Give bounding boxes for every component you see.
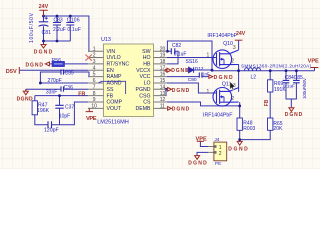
svg-text:FB: FB <box>78 92 85 98</box>
svg-text:6: 6 <box>93 78 96 84</box>
svg-text:IRF1404PbF: IRF1404PbF <box>203 112 232 118</box>
svg-text:C35: C35 <box>65 70 74 76</box>
svg-text:2.2uF: 2.2uF <box>53 27 66 33</box>
svg-text:7: 7 <box>93 84 96 90</box>
svg-text:4: 4 <box>93 65 96 71</box>
svg-text:2: 2 <box>219 151 222 157</box>
svg-text:DGND: DGND <box>285 112 303 118</box>
svg-text:RAMP: RAMP <box>107 74 123 80</box>
svg-text:DGND: DGND <box>172 88 190 94</box>
svg-text:15: 15 <box>160 78 166 84</box>
svg-text:CS: CS <box>143 100 151 106</box>
svg-text:1: 1 <box>93 46 96 52</box>
svg-text:FB: FB <box>264 99 270 106</box>
svg-text:0.1uF: 0.1uF <box>283 84 295 90</box>
svg-text:11: 11 <box>160 103 165 109</box>
svg-text:C106: C106 <box>67 17 80 23</box>
svg-text:LM25116MH: LM25116MH <box>97 119 129 125</box>
svg-text:L2: L2 <box>251 74 257 80</box>
svg-text:2: 2 <box>231 96 234 102</box>
svg-text:100uF/50V: 100uF/50V <box>29 12 35 43</box>
svg-text:SS: SS <box>107 87 114 93</box>
svg-text:VCC: VCC <box>140 74 151 80</box>
svg-text:12: 12 <box>160 97 166 103</box>
svg-text:0.1uF: 0.1uF <box>174 52 187 58</box>
svg-text:PE: PE <box>215 161 221 167</box>
svg-text:C37: C37 <box>65 105 74 111</box>
svg-text:C82: C82 <box>172 43 181 49</box>
svg-text:9: 9 <box>93 97 96 103</box>
svg-text:C80: C80 <box>188 77 197 83</box>
svg-text:2: 2 <box>93 53 96 59</box>
svg-text:COMP: COMP <box>107 100 123 106</box>
svg-text:Q10: Q10 <box>223 41 233 47</box>
svg-text:C81: C81 <box>42 30 52 36</box>
svg-text:3: 3 <box>93 59 96 65</box>
svg-text:J4: J4 <box>214 137 219 143</box>
svg-text:1: 1 <box>207 52 210 58</box>
svg-text:VCCX: VCCX <box>136 68 151 74</box>
svg-text:270pF: 270pF <box>48 78 62 84</box>
svg-text:120pF: 120pF <box>44 127 59 133</box>
svg-text:33nF: 33nF <box>46 90 57 96</box>
svg-text:VPE: VPE <box>86 116 97 122</box>
svg-text:SW: SW <box>142 49 150 55</box>
svg-text:DGND: DGND <box>17 96 33 102</box>
svg-text:100uF/50V: 100uF/50V <box>302 77 307 99</box>
svg-text:VIN: VIN <box>107 49 116 55</box>
svg-text:10: 10 <box>91 103 97 109</box>
svg-text:3: 3 <box>233 45 236 51</box>
svg-text:PGND: PGND <box>136 87 151 93</box>
svg-text:DGND: DGND <box>214 75 233 81</box>
svg-text:DGND: DGND <box>171 68 189 74</box>
svg-text:R003: R003 <box>243 126 255 132</box>
svg-text:C83: C83 <box>54 17 63 23</box>
svg-text:R56: R56 <box>52 58 62 64</box>
svg-text:SS16: SS16 <box>186 59 198 65</box>
svg-text:U13: U13 <box>101 37 111 43</box>
svg-text:24V: 24V <box>39 4 49 10</box>
svg-text:DGND: DGND <box>172 106 190 112</box>
svg-text:VPE: VPE <box>196 136 207 142</box>
svg-text:AGND: AGND <box>107 81 122 87</box>
svg-text:2: 2 <box>231 59 234 65</box>
svg-text:DEMB: DEMB <box>136 106 152 112</box>
svg-text:24V: 24V <box>236 31 246 37</box>
svg-text:16: 16 <box>160 72 166 78</box>
svg-text:HO: HO <box>143 55 151 61</box>
svg-text:20: 20 <box>160 46 166 52</box>
svg-text:17: 17 <box>160 65 166 71</box>
svg-text:DGND: DGND <box>228 146 248 152</box>
svg-text:19: 19 <box>160 53 166 59</box>
svg-text:FB: FB <box>107 93 114 99</box>
svg-text:DGND: DGND <box>34 50 53 56</box>
svg-text:10pF: 10pF <box>59 113 70 119</box>
svg-text:RT/SYNC: RT/SYNC <box>107 62 130 68</box>
svg-text:196K: 196K <box>37 108 50 114</box>
svg-text:1nF: 1nF <box>202 72 210 77</box>
svg-text:18: 18 <box>160 59 166 65</box>
svg-text:CSG: CSG <box>139 93 150 99</box>
svg-text:1: 1 <box>219 145 222 151</box>
svg-text:LO: LO <box>144 81 151 87</box>
svg-text:5: 5 <box>93 72 96 78</box>
svg-text:DGND: DGND <box>26 63 44 69</box>
svg-text:VOUT: VOUT <box>107 106 122 112</box>
svg-text:20K: 20K <box>273 126 283 132</box>
svg-text:D5V: D5V <box>6 69 17 75</box>
svg-text:13: 13 <box>160 91 166 97</box>
svg-text:C84: C84 <box>285 75 294 81</box>
svg-text:C36: C36 <box>64 85 73 91</box>
svg-text:HB: HB <box>143 62 151 68</box>
svg-text:0.1uF: 0.1uF <box>67 27 81 33</box>
svg-text:1: 1 <box>207 89 210 95</box>
svg-text:EN: EN <box>107 68 114 74</box>
svg-text:IRF1404PbF: IRF1404PbF <box>207 33 236 39</box>
svg-text:DGND: DGND <box>188 161 207 167</box>
svg-text:UVLO: UVLO <box>107 55 121 61</box>
svg-text:14: 14 <box>160 84 166 90</box>
svg-text:SMMS1360-2R2M(2.2uH/20A): SMMS1360-2R2M(2.2uH/20A) <box>241 63 311 68</box>
svg-text:8: 8 <box>93 91 96 97</box>
